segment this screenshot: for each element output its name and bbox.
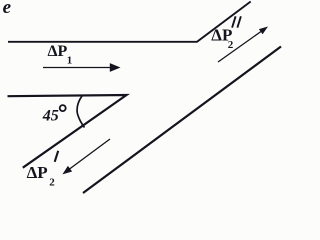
label 45°: [42, 105, 66, 124]
angle arc (45 degrees): [77, 96, 84, 128]
arrow: flow direction ΔP2 II (up-right along branch II): [218, 27, 268, 63]
svg-text:e: e: [3, 0, 12, 18]
svg-text:2: 2: [49, 176, 55, 188]
svg-text:ΔP: ΔP: [27, 163, 48, 182]
label ΔP2 superscript I: [27, 151, 59, 189]
arrow: flow direction ΔP2 I (down-left along branch I): [62, 139, 110, 174]
label ΔP1: [48, 43, 73, 67]
svg-text:45: 45: [42, 108, 59, 125]
wire: common diagonal wall (branch I / branch II divider): [83, 47, 281, 194]
arrow: flow direction ΔP1 (rightward): [43, 63, 121, 72]
wire: main channel top wall + branch II upper wall: [8, 2, 251, 42]
svg-text:ΔP: ΔP: [48, 43, 68, 60]
label ΔP2 superscript II: [211, 16, 241, 51]
svg-text:1: 1: [67, 55, 73, 67]
wire: main channel bottom wall bending into branch I lower wall: [8, 95, 127, 168]
svg-text:2: 2: [228, 39, 234, 51]
